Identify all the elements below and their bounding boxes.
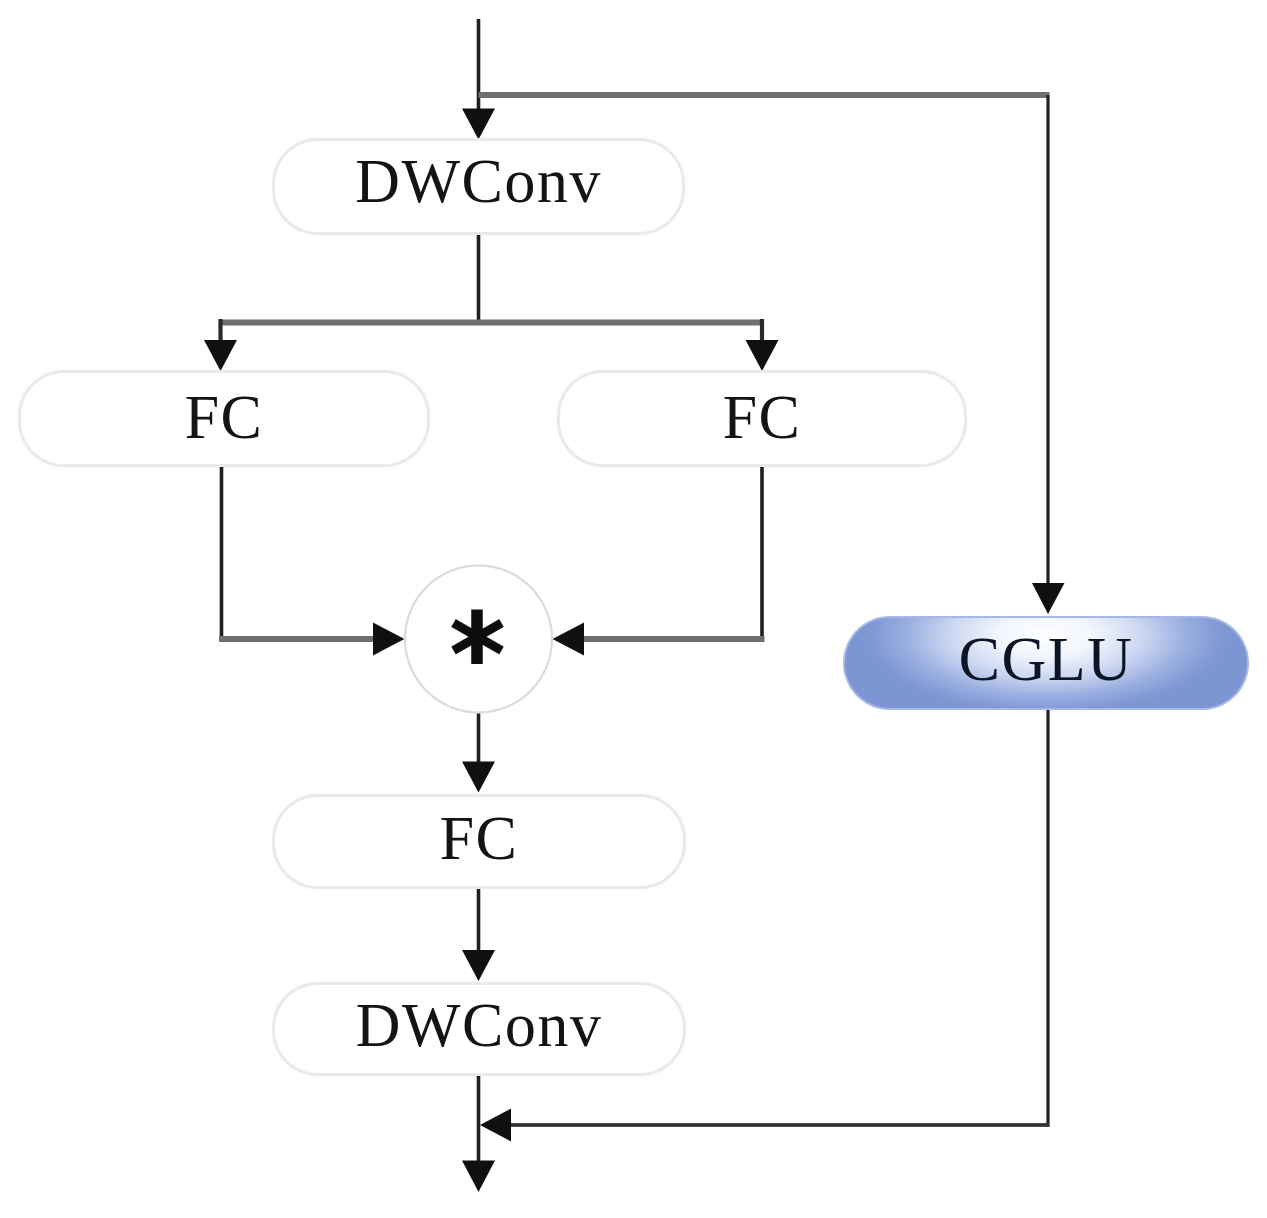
wire top-input vertical bbox=[477, 19, 481, 112]
wire right FC down bbox=[760, 466, 764, 642]
wire stub to right FC bbox=[760, 319, 764, 343]
arrowhead into multiply circle left side bbox=[373, 623, 405, 656]
box FC right bbox=[557, 370, 967, 467]
wire left FC down bbox=[220, 466, 224, 642]
box DWConv (top) bbox=[272, 138, 685, 235]
wire middle FC to bottom DWConv bbox=[477, 888, 481, 952]
wire gray horizontal branch to CGLU (top) bbox=[479, 92, 1050, 98]
arrowhead into right FC box bbox=[746, 340, 779, 371]
wire bottom DWConv to output bbox=[477, 1075, 481, 1163]
arrowhead into left FC box bbox=[204, 340, 237, 371]
arrowhead into middle FC box bbox=[462, 762, 495, 793]
box FC middle bbox=[272, 794, 686, 889]
arrowhead into bottom DWConv box bbox=[462, 950, 495, 981]
box FC left bbox=[18, 370, 430, 467]
arrowhead into multiply circle right side bbox=[553, 623, 585, 656]
asterisk multiply symbol bbox=[454, 610, 502, 665]
arrowhead into CGLU box bbox=[1032, 583, 1065, 614]
wire gray into multiply circle from left bbox=[219, 636, 375, 642]
box CGLU bbox=[843, 616, 1249, 710]
wire stub to left FC bbox=[218, 319, 222, 343]
wire CGLU down vertical bbox=[1046, 709, 1049, 1127]
arrowhead into DWConv top box bbox=[462, 109, 495, 140]
wire multiply circle to middle FC bbox=[477, 711, 481, 764]
multiply node circle bbox=[405, 566, 552, 713]
box DWConv (bottom) bbox=[272, 982, 686, 1076]
wire bottom horizontal to junction bbox=[511, 1123, 1050, 1127]
wire gray split horizontal bbox=[219, 320, 764, 326]
arrowhead into bottom junction bbox=[480, 1109, 511, 1142]
wire gray into multiply circle from right bbox=[582, 636, 765, 642]
wire DWConv to split bbox=[477, 235, 481, 323]
wire right vertical down to CGLU bbox=[1046, 95, 1049, 586]
arrowhead output bottom bbox=[462, 1161, 495, 1193]
